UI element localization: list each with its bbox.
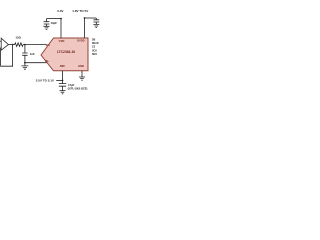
node feedback tap <box>12 44 14 46</box>
svg-text:(X7R, 0805 SIZE): (X7R, 0805 SIZE) <box>68 88 88 91</box>
wire output of op-amp <box>8 44 14 46</box>
wire OVDD rail down <box>84 18 86 38</box>
wire feedback loop <box>1 45 13 67</box>
capacitor C1 1nF stub top <box>24 45 26 53</box>
resistor 15R zigzag <box>15 43 23 47</box>
svg-text:DB: DB <box>92 40 96 42</box>
wire OVDD rail to bypass cap <box>85 17 97 19</box>
svg-text:1.8V TO 5V: 1.8V TO 5V <box>72 9 89 13</box>
capacitor OVDD bypass plates <box>93 20 99 22</box>
svg-text:15Ω: 15Ω <box>15 35 21 39</box>
op-amp U1 <box>1 38 8 50</box>
capacitor 47uF stub <box>62 81 64 84</box>
node REF <box>62 80 64 82</box>
wire 47uF cap to ground <box>62 86 64 90</box>
capacitor C1 1nF plates <box>22 53 27 55</box>
ground under 10uF <box>44 24 50 29</box>
capacitor OVDD bypass stub <box>95 18 97 20</box>
node VDD rail <box>60 18 62 20</box>
ground under node B <box>22 63 29 69</box>
capacitor 10uF plates <box>44 22 50 24</box>
wire resistor to node A and on to IN+ <box>23 44 46 46</box>
svg-text:SDO: SDO <box>92 54 97 56</box>
svg-text:OV DD: OV DD <box>77 39 85 43</box>
node B <box>24 62 26 64</box>
svg-text:CS: CS <box>92 47 96 49</box>
ground under GND pin <box>79 77 85 80</box>
svg-text:2.5V TO 5.1V: 2.5V TO 5.1V <box>36 79 54 83</box>
node OVDD rail <box>84 17 86 19</box>
wire VDD rail down <box>60 19 62 38</box>
svg-text:IN+: IN+ <box>46 43 51 47</box>
svg-text:1nF: 1nF <box>30 52 35 56</box>
svg-text:10µF: 10µF <box>51 21 58 25</box>
capacitor 47uF plates <box>59 84 66 87</box>
ground under OVDD cap <box>93 22 99 28</box>
svg-text:REF: REF <box>60 64 66 68</box>
op-amp plus input stub <box>0 40 1 42</box>
op-amp minus input stub <box>0 47 2 49</box>
svg-text:GND: GND <box>78 64 84 68</box>
ground under 47uF <box>60 91 66 94</box>
wire REF pin down <box>62 71 64 81</box>
svg-text:47µF: 47µF <box>68 83 75 87</box>
wire REF label to node <box>56 80 62 82</box>
wire VDD rail to bypass cap <box>47 18 62 20</box>
svg-text:LTC2364-16: LTC2364-16 <box>57 50 75 54</box>
svg-text:V DD: V DD <box>59 39 65 43</box>
svg-text:3.3V: 3.3V <box>57 9 64 13</box>
node A <box>24 44 26 46</box>
ADC U2 LTC2364-16 body <box>41 38 88 71</box>
svg-text:SCK: SCK <box>92 50 97 52</box>
wire node B to IN- <box>25 62 47 64</box>
wire GND pin down <box>81 71 83 77</box>
svg-text:READ: READ <box>92 42 99 45</box>
capacitor 10uF stub <box>46 19 48 22</box>
wire cap bottom to node B <box>24 55 26 62</box>
svg-text:IN−: IN− <box>45 59 50 63</box>
